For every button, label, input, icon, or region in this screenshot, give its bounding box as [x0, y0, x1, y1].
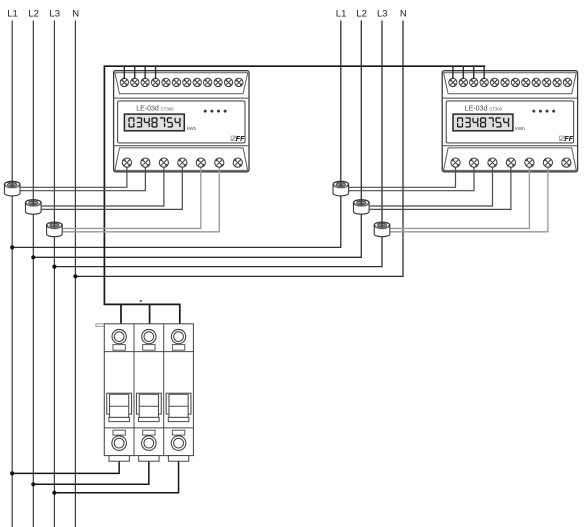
svg-text:N: N [72, 8, 79, 19]
wire CT secondary P1 T2 l [41, 163, 182, 210]
breaker Q1 module dividers [104, 324, 193, 456]
junction dot breaker output on L2 [31, 482, 35, 486]
svg-text:FF: FF [236, 136, 245, 143]
wire CT secondary P1 T2 k [41, 163, 164, 206]
meter P2 top terminal block [444, 73, 577, 94]
meter P2 LCD counter 0348754 [453, 114, 513, 131]
wire CT secondary P1 T1 k [20, 163, 127, 188]
meter P2 indicator LEDs [532, 110, 555, 113]
wire voltage-tap bus (top horizontal run) [104, 65, 485, 67]
svg-text:FF: FF [565, 136, 574, 143]
wire CT secondary P1 T1 l [20, 163, 145, 191]
svg-text:CT300: CT300 [161, 106, 175, 111]
junction dot breaker output on L1 [10, 471, 14, 475]
wire meter P2 voltage stub 1 [452, 66, 454, 79]
junction dot L1 tie [10, 245, 14, 249]
wire breaker output to L2 [33, 461, 149, 485]
wire meter P2 voltage stub 3 [473, 66, 475, 79]
svg-text:L2: L2 [28, 8, 39, 19]
meter P1 housing [114, 71, 249, 172]
breaker Q1 pole 3 bottom terminal [171, 430, 186, 450]
meter P1 LCD counter 0348754 [124, 114, 184, 131]
wire meter P1 voltage stub 4 [155, 66, 157, 79]
wire breaker output to L3 [54, 461, 178, 493]
junction dot N tie [73, 274, 77, 278]
wire CT secondary P2 T6 k [390, 163, 530, 229]
breaker Q1 pole 1 top terminal [112, 329, 126, 350]
meter P1 top terminal screws 1-12 [120, 78, 243, 86]
breaker Q1 pole 2 bottom foot [139, 456, 159, 462]
svg-text:L2: L2 [356, 8, 367, 19]
wire L2 left feeder (vertical) [32, 21, 34, 527]
svg-text:L1: L1 [7, 8, 18, 19]
breaker Q1 pole 2 bottom terminal [142, 430, 157, 450]
meter P2 bottom terminal screws 1-7 [451, 158, 571, 167]
meter P1 housing divider lines [114, 98, 249, 146]
current transformer T6 on right L3 [374, 222, 390, 237]
breaker Q1 pole 2 top terminal [142, 329, 156, 350]
breaker Q1 DIN-rail ear [96, 324, 104, 327]
wire meter P2 voltage stub 4 [483, 66, 485, 79]
breaker Q1 pole 1 bottom terminal [112, 430, 127, 450]
breaker Q1 pole 1 toggle handle [107, 393, 132, 421]
meter P1 display panel [118, 101, 245, 143]
junction dot L2 tie [31, 255, 35, 259]
meter P2 F&F logo [560, 136, 574, 143]
wire L3 left feeder (vertical) [53, 21, 55, 527]
wire N left feeder (vertical) [74, 21, 76, 527]
meter P1 bottom terminal block [115, 148, 248, 171]
meter P2 display panel [446, 101, 573, 143]
svg-text:kWh: kWh [515, 126, 525, 132]
junction dot breaker output on L3 [52, 491, 56, 495]
wire breaker output to L1 [12, 461, 119, 474]
wire meter P1 voltage stub 1 [123, 66, 125, 79]
wire L1 right feeder with tie bus to left L1 [12, 21, 341, 248]
wire N right feeder with tie bus to left N [75, 21, 403, 277]
meter P1 F&F logo [231, 136, 245, 143]
breaker Q1 pole 2 toggle handle [136, 393, 161, 421]
svg-text:LE-03d: LE-03d [136, 106, 159, 113]
svg-text:LE-03d: LE-03d [465, 106, 488, 113]
wire breaker feed stub pole 2 [149, 304, 151, 323]
wire CT secondary P1 T3 k [62, 163, 201, 229]
meter P1 top terminal block [115, 73, 248, 94]
svg-text:N: N [400, 8, 407, 19]
svg-text:kWh: kWh [187, 126, 197, 132]
svg-text:L1: L1 [336, 8, 347, 19]
breaker Q1 pole 3 bottom foot [168, 456, 188, 462]
wire CT secondary P2 T4 k [349, 163, 456, 188]
meter P1 bottom terminal screws 1-7 [122, 158, 242, 167]
svg-text:L3: L3 [377, 8, 388, 19]
svg-text:CT300: CT300 [489, 106, 503, 111]
meter P2 housing [442, 71, 577, 172]
meter P2 bottom terminal block [444, 148, 577, 171]
current transformer T5 on right L2 [354, 200, 370, 215]
stray mark near feed run [140, 300, 142, 301]
wire meter P1 voltage stub 2 [134, 66, 136, 79]
meter P2 housing divider lines [442, 98, 577, 146]
breaker Q1 pole 3 top terminal [171, 329, 185, 350]
wire CT secondary P2 T4 l [349, 163, 475, 191]
breaker Q1 pole 1 bottom foot [109, 456, 129, 462]
breaker Q1 body [104, 324, 193, 456]
current transformer T2 on L2 [26, 200, 42, 215]
wire L1 left feeder (vertical) [11, 21, 13, 527]
wire meter P1 voltage stub 3 [144, 66, 146, 79]
svg-text:L3: L3 [49, 8, 60, 19]
meter P1 indicator LEDs [204, 110, 227, 113]
wire L2 right feeder with tie bus to left L2 [33, 21, 361, 258]
wire meter P2 voltage stub 2 [462, 66, 464, 79]
wire CT secondary P1 T3 l [62, 163, 219, 232]
wire CT secondary P2 T6 l [390, 163, 548, 232]
meter P2 top terminal screws 1-12 [449, 78, 572, 86]
junction dot L3 tie [52, 265, 56, 269]
current transformer T4 on right L1 [333, 181, 349, 196]
wire supply drop to breaker with feed run [104, 65, 179, 323]
current transformer T3 on L3 [47, 222, 63, 237]
wire breaker feed stub pole 1 [120, 304, 122, 323]
wire CT secondary P2 T5 l [369, 163, 511, 210]
breaker Q1 pole 3 toggle handle [166, 393, 191, 421]
current transformer T1 on L1 [4, 181, 20, 196]
wire CT secondary P2 T5 k [369, 163, 493, 206]
wire L3 right feeder with tie bus to left L3 [54, 21, 382, 267]
